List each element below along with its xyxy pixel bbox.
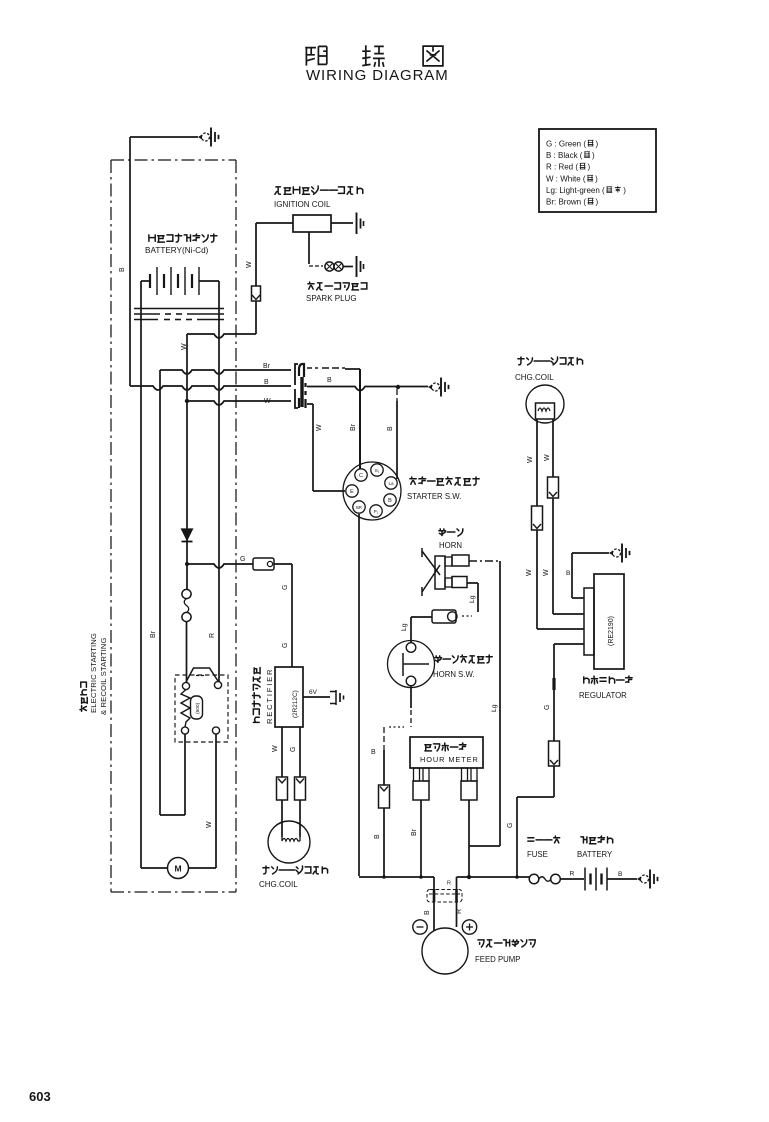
wire motor right (189, 867, 217, 869)
svg-text:CHG.COIL: CHG.COIL (515, 373, 554, 382)
starter switch terminal B (384, 494, 396, 506)
svg-text:G: G (290, 747, 297, 752)
svg-text:G: G (282, 585, 289, 590)
svg-text:STARTER S.W.: STARTER S.W. (407, 492, 461, 501)
label チャージコイル top (518, 357, 583, 365)
wire battery negative vertical (140, 281, 142, 868)
ground spark plug (356, 256, 358, 277)
wire regulator G down (554, 643, 584, 645)
horn terminal top (445, 557, 452, 566)
wire B to starter La (396, 389, 398, 395)
fuse F2 (529, 874, 539, 884)
svg-text:BATTERY: BATTERY (577, 850, 613, 859)
wire motor left (141, 867, 168, 869)
svg-text:ELECTRIC STARTING: ELECTRIC STARTING (89, 633, 98, 713)
title kanji 線 (362, 45, 385, 67)
wire Br vertical (159, 370, 161, 815)
wire pump left (433, 877, 435, 931)
legend box (539, 129, 656, 212)
battery BT1 (Ni-Cd) (141, 280, 150, 282)
wire relay coil to Br (184, 734, 186, 815)
svg-text:HORN S.W.: HORN S.W. (433, 670, 475, 679)
wire fuse to battery (561, 878, 585, 880)
wire chg W right (552, 419, 554, 477)
svg-text:RECTIFIER: RECTIFIER (265, 668, 274, 724)
relay contact bridge (186, 668, 218, 682)
wire branch to Lg (469, 845, 500, 847)
junction (467, 875, 471, 879)
svg-text:B: B (566, 570, 571, 577)
svg-text:W: W (527, 456, 534, 463)
label スタータスイッチ (410, 477, 479, 485)
connector (548, 477, 559, 498)
svg-text:R: R (447, 881, 451, 887)
svg-text:B: B (388, 498, 392, 504)
svg-text:): ) (592, 151, 595, 160)
svg-text:(2R212C): (2R212C) (292, 690, 299, 718)
svg-text:G: G (282, 643, 289, 648)
label ホーンスイッチ (435, 655, 492, 663)
svg-text:): ) (596, 198, 599, 207)
horn terminal bottom (445, 578, 452, 587)
svg-text:B: B (374, 834, 381, 839)
diode D1 (182, 529, 193, 540)
svg-text:W: W (264, 398, 271, 405)
starter switch terminal C (355, 469, 367, 481)
svg-text:B: B (327, 377, 332, 384)
svg-text:G: G (544, 705, 551, 710)
svg-text:B: B (264, 379, 269, 386)
fuse F1 (182, 589, 191, 598)
starter switch terminal E (346, 485, 358, 497)
svg-text:): ) (588, 163, 591, 172)
label アワメータ (425, 743, 466, 751)
connector on G wire (253, 558, 274, 570)
svg-text:P₁: P₁ (374, 509, 379, 514)
wire hour meter left (420, 800, 422, 877)
label チャージコイル (263, 866, 328, 874)
wire to chg coil (281, 800, 283, 837)
svg-text:W: W (206, 821, 213, 828)
wire regulator B to ground (572, 552, 609, 554)
svg-text:G : Green (: G : Green ( (546, 140, 586, 149)
title kanji 図 (423, 46, 443, 66)
wire to horn switch (411, 616, 432, 618)
connector (532, 506, 543, 530)
label イグニッションコイル (275, 186, 338, 194)
svg-text:B : Black (: B : Black ( (546, 151, 583, 160)
wire hour meter right (468, 800, 470, 877)
svg-text:G: G (240, 556, 245, 563)
motor M1 (168, 858, 189, 879)
svg-text:R: R (209, 633, 216, 638)
svg-text:W: W (544, 454, 551, 461)
wire B bus left (130, 386, 291, 390)
wire W/ignition vertical (186, 334, 188, 564)
wire starter BR down to bus (358, 514, 360, 876)
svg-text:603: 603 (29, 1089, 51, 1104)
svg-text:CHG.COIL: CHG.COIL (259, 880, 298, 889)
dashed option box: electric &amp; recoil starting (110, 160, 112, 892)
svg-text:Lg: Lg (491, 704, 498, 712)
wire 6V to ground (303, 696, 330, 698)
starter switch terminal La (385, 477, 397, 489)
starter switch SW1 (343, 462, 401, 520)
svg-text:B: B (387, 426, 394, 431)
battery BT2 (584, 868, 586, 891)
svg-text:Lg: Lg (401, 623, 408, 631)
regulator connector (584, 588, 594, 655)
horn switch top terminal (406, 643, 416, 653)
svg-text:Br: Brown (: Br: Brown ( (546, 198, 586, 207)
wire W horizontal (187, 334, 256, 338)
wire W to ignition coil (256, 222, 293, 224)
wire Br bus left (160, 370, 291, 374)
wire horn top dash-dot (469, 560, 500, 562)
svg-text:): ) (595, 175, 598, 184)
connector (379, 785, 390, 808)
ground 6V (330, 690, 336, 705)
label ヒューズ (528, 836, 560, 843)
wire chg to regulator pin3 (537, 628, 584, 630)
svg-text:W: W (543, 569, 550, 576)
title kanji 配 (305, 46, 327, 65)
starter switch terminal S₁ (371, 464, 383, 476)
svg-text:BR: BR (356, 505, 362, 510)
svg-text:FEED PUMP: FEED PUMP (475, 955, 521, 964)
starter switch terminal P₁ (370, 505, 382, 517)
ground ignition coil (356, 213, 358, 235)
horn switch bottom terminal (406, 676, 416, 686)
svg-text:R: R (456, 909, 463, 914)
wire B bus right (307, 387, 428, 391)
wire bottom bus (359, 876, 434, 878)
relay coil (181, 690, 190, 728)
svg-text:R : Red (: R : Red ( (546, 163, 578, 172)
svg-text:(RE2190): (RE2190) (608, 616, 615, 646)
connector (277, 777, 288, 800)
label セルリコ rotated (80, 682, 87, 711)
svg-text:BATTERY(Ni-Cd): BATTERY(Ni-Cd) (145, 246, 209, 255)
wire to spark plug (308, 232, 310, 264)
bullet connector (432, 610, 456, 623)
wire Lg vertical right (499, 561, 501, 846)
polarity plus (462, 920, 476, 934)
ground top-left (198, 128, 219, 147)
rectifier bottom wires (281, 727, 283, 777)
battery case lines (134, 308, 224, 310)
svg-text:W: W (246, 261, 253, 268)
label レギュレータ (584, 676, 632, 684)
wire to ground (130, 136, 198, 138)
connector 3-pole (295, 364, 298, 408)
wire to chg coil (299, 800, 301, 837)
svg-text:W: W (526, 569, 533, 576)
charge coil L1 (526, 385, 564, 423)
starter switch terminal BR (353, 501, 365, 513)
horn speaker (422, 548, 440, 596)
hour meter box (410, 737, 483, 768)
wire battery to ground (607, 878, 637, 880)
wire ignition coil to ground (331, 222, 353, 224)
svg-text:W: W (272, 745, 279, 752)
wire R battery positive (218, 281, 220, 682)
svg-text:S₁: S₁ (375, 468, 380, 474)
coil winding (282, 837, 300, 841)
svg-text:M: M (174, 864, 181, 874)
junction (396, 385, 400, 389)
svg-text:G: G (507, 823, 514, 828)
svg-text:6V: 6V (309, 689, 318, 696)
charge coil L2 (268, 821, 310, 863)
label フィードポンプ (478, 940, 535, 947)
svg-text:): ) (623, 186, 626, 195)
svg-text:B: B (371, 749, 376, 756)
svg-text:W : White (: W : White ( (546, 175, 586, 184)
svg-text:SPARK PLUG: SPARK PLUG (306, 294, 357, 303)
svg-text:Br: Br (263, 363, 271, 370)
wire G from diode junction (187, 564, 253, 568)
svg-text:E: E (350, 489, 354, 495)
svg-text:FUSE: FUSE (527, 850, 548, 859)
svg-text:Br: Br (150, 630, 157, 638)
svg-text:(600): (600) (195, 702, 201, 714)
regulator box U1 (594, 574, 624, 669)
connector tick (552, 678, 555, 690)
ignition coil T1 (293, 215, 331, 232)
svg-text:B: B (618, 871, 623, 878)
junction G wire (185, 562, 189, 566)
svg-text:Br: Br (411, 828, 418, 836)
svg-text:): ) (596, 140, 599, 149)
starter relay box (175, 675, 228, 742)
svg-text:& RECOIL STARTING: & RECOIL STARTING (99, 637, 108, 715)
svg-text:B: B (424, 910, 431, 915)
svg-text:B: B (119, 267, 126, 272)
ground (609, 544, 630, 563)
wire chg W left (536, 419, 538, 506)
wire Br to starter C (307, 367, 318, 369)
hour meter right terminal (462, 768, 468, 781)
polarity minus (413, 920, 427, 934)
svg-text:R: R (570, 871, 575, 878)
charge coil winding (536, 403, 555, 419)
wire W bus left (185, 399, 189, 403)
svg-text:La: La (388, 481, 394, 486)
svg-text:C: C (359, 473, 363, 479)
spark plug gap (325, 262, 334, 271)
connector on W wire (252, 286, 261, 301)
label レクチファイヤ rotated (253, 667, 261, 722)
wire pump right (456, 877, 458, 927)
connector (549, 741, 560, 766)
wire relay to motor (215, 734, 217, 868)
wire horn bottom (467, 582, 478, 584)
ground B bus (428, 378, 449, 397)
svg-text:Lg: Lg (469, 595, 476, 603)
wire W to starter E (307, 403, 313, 405)
label ホーン (439, 529, 463, 536)
label バッテリ (581, 836, 613, 844)
junction (515, 875, 519, 879)
svg-text:WIRING DIAGRAM: WIRING DIAGRAM (306, 67, 449, 84)
label スパークプラグ (308, 282, 367, 290)
connector (295, 777, 306, 800)
fuel pump P1 (422, 928, 468, 974)
label ニッカドデンチ (149, 234, 217, 242)
svg-text:W: W (316, 424, 323, 431)
svg-text:Lg: Light-green (: Lg: Light-green ( (546, 186, 605, 195)
svg-text:HORN: HORN (439, 541, 462, 550)
hour meter left terminal (414, 768, 420, 781)
svg-text:Br: Br (350, 423, 357, 431)
wire chg to regulator pin2 (553, 613, 584, 615)
wire horn switch down (410, 686, 412, 708)
svg-text:IGNITION COIL: IGNITION COIL (274, 200, 331, 209)
horn switch SW2 (388, 641, 435, 688)
relay contact terminals (182, 682, 189, 689)
rectifier box (275, 667, 303, 727)
svg-text:HOUR METER: HOUR METER (420, 755, 479, 764)
wire B vertical (129, 137, 131, 386)
ground battery (637, 870, 658, 889)
pump connector dashed (427, 890, 462, 903)
horn switch contact (403, 653, 429, 676)
svg-text:REGULATOR: REGULATOR (579, 691, 627, 700)
